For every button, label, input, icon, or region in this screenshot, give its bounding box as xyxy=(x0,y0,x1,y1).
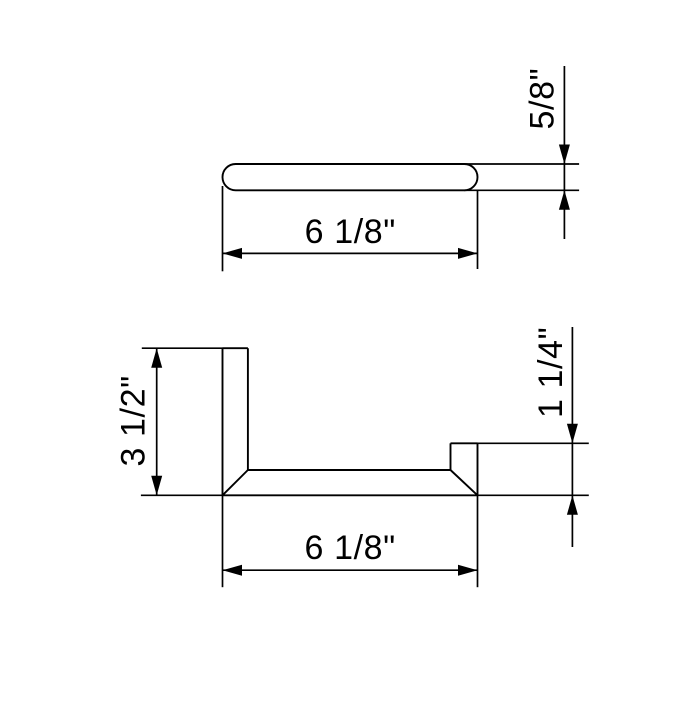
top view: bar outline (capsule) xyxy=(223,164,478,190)
svg-text:6 1/8": 6 1/8" xyxy=(305,529,396,567)
svg-text:6 1/8": 6 1/8" xyxy=(305,213,396,251)
extension line: top-left for 3 1/2 dim xyxy=(142,347,223,349)
label 1 1/4" xyxy=(532,327,570,418)
extension line: bottom-right of capsule for 5/8 dim xyxy=(464,189,579,191)
post right edge xyxy=(247,348,249,470)
post top edge xyxy=(223,347,248,349)
dimension 1 1/4" vertical line upper segment with down arrow xyxy=(567,327,578,547)
extension line: step top right for 1 1/4 dim xyxy=(478,442,589,444)
label 3 1/2" xyxy=(114,375,152,466)
step left edge xyxy=(450,443,452,470)
step top edge xyxy=(451,442,478,444)
extension line: right below capsule for top 6 1/8 dim xyxy=(477,191,479,269)
bottom edge xyxy=(223,494,478,496)
dimension 1 1/4" vertical line lower segment with up arrow xyxy=(567,495,578,515)
dimension line bottom 6 1/8" with outward arrows xyxy=(223,565,478,576)
svg-text:3 1/2": 3 1/2" xyxy=(114,375,152,466)
extension line: bottom-left for lower 6 1/8 dim xyxy=(222,495,224,587)
extension line: bottom right for 1 1/4 dim xyxy=(478,494,589,496)
left chamfer xyxy=(223,470,248,495)
svg-text:1 1/4": 1 1/4" xyxy=(532,327,570,418)
right chamfer xyxy=(451,470,478,495)
svg-text:5/8": 5/8" xyxy=(523,68,561,130)
dimension 5/8" vertical line lower segment with up arrow xyxy=(559,190,570,210)
label top 6 1/8" xyxy=(305,213,396,251)
label 5/8" xyxy=(523,68,561,130)
extension line: bottom-right for lower 6 1/8 dim xyxy=(477,495,479,587)
dimension line top 6 1/8" with outward arrows xyxy=(223,248,478,259)
dimension line 3 1/2" with outward arrows xyxy=(151,348,162,495)
post left edge xyxy=(222,348,224,495)
part right edge xyxy=(477,443,479,495)
extension line: left below capsule for top 6 1/8 dim xyxy=(222,186,224,271)
extension line: bottom-left for 3 1/2 dim xyxy=(141,494,223,496)
dimension 5/8" vertical line upper segment with down arrow xyxy=(559,66,570,239)
bottom view: part outline xyxy=(223,348,478,495)
label bottom 6 1/8" xyxy=(305,529,396,567)
inner horizontal edge xyxy=(248,469,451,471)
extension line: top-right of capsule for 5/8 dim xyxy=(464,163,579,165)
